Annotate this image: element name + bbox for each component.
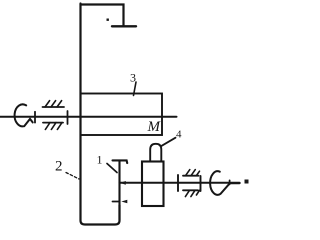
bearing right top hatching xyxy=(186,170,200,176)
junction arrow on rod xyxy=(120,181,126,185)
collar tick left of bearing xyxy=(34,112,36,123)
leader of label 2 xyxy=(66,173,79,180)
cap of cylinder 4 xyxy=(150,144,161,162)
cylinder 4 body xyxy=(142,162,164,207)
handwheel left xyxy=(15,104,33,126)
bearing left top hatching xyxy=(45,101,62,107)
bearing left bottom hatching xyxy=(45,123,62,130)
bearing right bottom hatching xyxy=(185,190,199,196)
rod lower arrow xyxy=(121,200,127,204)
gearbox 3 xyxy=(81,94,163,136)
leader of label 1 xyxy=(107,164,117,173)
shaft end serif xyxy=(229,180,231,184)
bearing left bottom plate xyxy=(43,122,63,124)
frame 2 left wall and bottom xyxy=(81,4,120,225)
leader of label 3 xyxy=(134,82,137,96)
shaft end mark xyxy=(245,180,249,184)
rod 1 xyxy=(118,161,120,221)
lever T-bar 1 xyxy=(113,160,128,163)
collar tick right of bearing xyxy=(67,111,69,124)
collar tick left of right bearing xyxy=(177,175,179,191)
shaft dash after right handwheel xyxy=(231,182,240,184)
frame top foot bar xyxy=(112,25,136,27)
bearing right top plate xyxy=(183,175,199,177)
top shaft xyxy=(0,116,177,118)
collar tick right of right bearing xyxy=(200,176,202,191)
svg-text:3: 3 xyxy=(130,71,136,85)
frame top dot xyxy=(107,19,109,21)
rod lower tick xyxy=(113,201,120,203)
svg-text:M: M xyxy=(147,119,162,135)
frame top bar xyxy=(81,5,124,26)
svg-text:1: 1 xyxy=(97,153,103,167)
bearing left top plate xyxy=(43,106,65,108)
svg-text:2: 2 xyxy=(55,159,63,175)
leader of label 4 xyxy=(161,138,176,147)
bottom shaft xyxy=(120,182,230,184)
handwheel right xyxy=(210,171,229,195)
bearing right bottom plate xyxy=(183,189,198,191)
svg-text:4: 4 xyxy=(176,129,182,141)
